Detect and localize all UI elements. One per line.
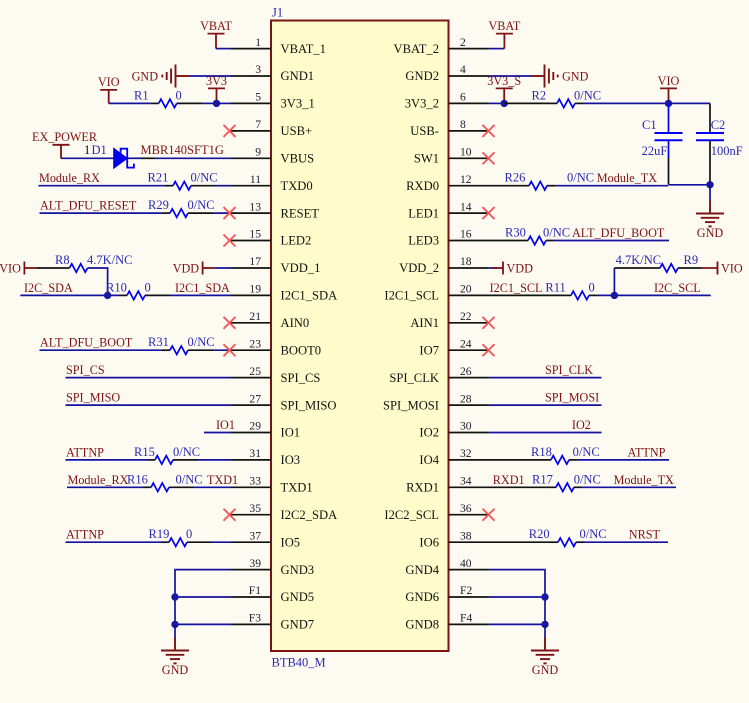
pin 23 BOOT0: [231, 337, 321, 357]
pin 5 3V3_1: [231, 91, 315, 111]
power port 3V3 (above pin5 node): [208, 88, 225, 103]
pin 8 USB-: [410, 118, 488, 138]
resistor R31 0/NC (row 23): [148, 335, 215, 354]
svg-text:0/NC: 0/NC: [176, 472, 203, 486]
wire ATTNP to R19: [66, 541, 162, 543]
svg-text:AIN1: AIN1: [410, 316, 439, 330]
svg-text:VIO: VIO: [658, 74, 680, 88]
svg-text:R17: R17: [532, 472, 553, 486]
resistor R16 0/NC (row 33): [127, 472, 203, 491]
pin 9 VBUS: [231, 146, 314, 166]
wire SPI_MISO to pin 27: [66, 404, 232, 406]
pin 34 RXD1: [406, 475, 488, 495]
no-connect X pin 10 SW1: [483, 152, 495, 164]
svg-text:28: 28: [460, 392, 472, 405]
wire pin 16 to R30: [489, 240, 521, 242]
pin 21 AIN0: [231, 310, 309, 330]
svg-text:R30: R30: [505, 226, 526, 240]
svg-text:VBAT: VBAT: [200, 19, 232, 33]
wire R16 to pin 33: [194, 486, 231, 488]
wire pin 20 to R11: [489, 294, 564, 296]
wire ALT_DFU_RESET to R29: [40, 212, 163, 214]
svg-text:TXD1: TXD1: [281, 481, 313, 495]
svg-text:IO3: IO3: [281, 453, 301, 467]
resistor R17 0/NC (row 34): [532, 472, 601, 491]
pin 22 AIN1: [410, 310, 488, 330]
svg-text:SPI_MOSI: SPI_MOSI: [383, 398, 439, 412]
no-connect X pin 8 USB-: [483, 125, 495, 137]
svg-text:LED1: LED1: [408, 206, 439, 220]
wire I2C_SDA to R10: [20, 294, 119, 296]
power port 3V3_S (above pin 6 node): [496, 88, 513, 103]
svg-text:GND4: GND4: [405, 563, 439, 577]
svg-text:RESET: RESET: [281, 206, 320, 220]
svg-text:AIN0: AIN0: [281, 316, 310, 330]
svg-text:36: 36: [460, 502, 472, 515]
svg-text:IO6: IO6: [419, 535, 439, 549]
wire R15 to pin 31: [198, 459, 231, 461]
wire VIO to R1: [109, 102, 151, 104]
power port VBAT (right of pin 2): [496, 34, 513, 49]
svg-text:4.7K/NC: 4.7K/NC: [87, 253, 133, 267]
svg-text:GND: GND: [697, 226, 724, 240]
svg-text:IO1: IO1: [216, 418, 235, 432]
resistor R21 0/NC (row 11): [148, 171, 218, 190]
svg-text:SPI_CS: SPI_CS: [66, 363, 105, 377]
svg-text:BOOT0: BOOT0: [281, 343, 322, 357]
svg-text:R16: R16: [127, 472, 148, 486]
svg-text:23: 23: [249, 337, 261, 350]
svg-text:12: 12: [460, 173, 472, 186]
junction 3V3 node: [213, 100, 220, 107]
resistor R18 0/NC (row 32): [531, 445, 600, 464]
svg-text:14: 14: [460, 200, 472, 213]
wire ALT_DFU_BOOT to R31: [40, 349, 163, 351]
no-connect X pin 35 I2C2_SDA: [224, 509, 236, 521]
resistor R30 0/NC (row 16): [505, 226, 570, 245]
pin 2 VBAT_2: [394, 36, 489, 56]
svg-text:VBAT_1: VBAT_1: [281, 42, 326, 56]
wire R29 to pin 13: [213, 212, 231, 214]
pin 14 LED1: [408, 200, 488, 220]
svg-text:VDD: VDD: [173, 262, 200, 276]
resistor R29 0/NC (row 13): [148, 198, 215, 217]
no-connect X pin 14 LED1: [483, 207, 495, 219]
wire R8 down to SDA node: [88, 268, 108, 295]
wire pin 6 to 3V3_S node: [489, 102, 505, 104]
wire VIO to R8: [36, 267, 61, 269]
connector J1 body BTB40_M: [271, 21, 449, 652]
svg-text:IO2: IO2: [572, 418, 591, 432]
svg-text:18: 18: [460, 255, 472, 268]
svg-text:ALT_DFU_BOOT: ALT_DFU_BOOT: [40, 336, 133, 350]
svg-text:0: 0: [589, 280, 595, 294]
svg-text:R29: R29: [148, 198, 169, 212]
junction SCL node: [611, 292, 618, 299]
svg-text:IO5: IO5: [281, 535, 301, 549]
svg-text:I2C2_SDA: I2C2_SDA: [281, 508, 338, 522]
svg-text:RXD0: RXD0: [406, 179, 439, 193]
resistor R9 4.7K/NC (row 17 right pullup): [616, 253, 701, 272]
wire R26 to Module_TX: [555, 185, 668, 187]
svg-text:SPI_MISO: SPI_MISO: [66, 391, 120, 405]
svg-text:I2C1_SDA: I2C1_SDA: [281, 289, 338, 303]
svg-text:I2C1_SCL: I2C1_SCL: [384, 289, 439, 303]
svg-text:0/NC: 0/NC: [543, 226, 570, 240]
wire IO1 to pin 29: [204, 432, 231, 434]
svg-text:IO7: IO7: [419, 343, 439, 357]
svg-text:R18: R18: [531, 445, 552, 459]
svg-text:0/NC: 0/NC: [567, 171, 594, 185]
wire pin 30 IO2: [489, 432, 602, 434]
no-connect X pin 23: [224, 344, 236, 356]
svg-text:D1: D1: [92, 143, 107, 157]
power port VIO (top right rail): [660, 88, 677, 103]
svg-text:GND7: GND7: [281, 618, 315, 632]
svg-text:R2: R2: [532, 88, 547, 102]
svg-text:26: 26: [460, 365, 472, 378]
svg-text:1: 1: [255, 36, 261, 49]
svg-text:R19: R19: [149, 527, 170, 541]
wire ATTNP to R15: [66, 459, 148, 461]
svg-text:ATTNP: ATTNP: [628, 445, 666, 459]
wire pin 32 to R18: [489, 459, 544, 461]
svg-text:2: 2: [460, 36, 466, 49]
svg-text:C1: C1: [642, 118, 657, 132]
svg-text:R26: R26: [505, 171, 526, 185]
svg-text:3: 3: [255, 63, 261, 76]
pin 11 TXD0: [231, 173, 313, 193]
resistor R26 None (row 12): [505, 171, 556, 190]
no-connect X pin 21 AIN0: [224, 317, 236, 329]
svg-text:ALT_DFU_BOOT: ALT_DFU_BOOT: [572, 226, 665, 240]
wire R20 to NRST: [584, 541, 668, 543]
svg-text:Module_RX: Module_RX: [68, 473, 129, 487]
svg-text:100nF: 100nF: [711, 144, 743, 158]
pin 37 IO5: [231, 529, 300, 549]
svg-text:BTB40_M: BTB40_M: [272, 656, 326, 670]
svg-text:3V3_S: 3V3_S: [487, 74, 521, 88]
svg-text:29: 29: [249, 420, 261, 433]
pin 29 IO1: [231, 420, 300, 440]
svg-text:SW1: SW1: [414, 152, 439, 166]
resistor R11 0 (row 20): [545, 280, 597, 299]
pin 38 IO6: [419, 529, 488, 549]
svg-text:RXD1: RXD1: [406, 481, 439, 495]
svg-text:ATTNP: ATTNP: [66, 528, 104, 542]
svg-text:F4: F4: [460, 612, 472, 625]
pin 16 LED3: [408, 228, 488, 248]
svg-text:LED3: LED3: [408, 234, 439, 248]
svg-text:25: 25: [249, 365, 261, 378]
power port EX_POWER: [53, 145, 70, 159]
pin 17 VDD_1: [231, 255, 320, 275]
no-connect X pin 36 I2C2_SCL: [483, 509, 495, 521]
svg-text:34: 34: [460, 475, 472, 488]
pin 24 IO7: [419, 337, 488, 357]
wire pin 2 to VBAT: [489, 48, 505, 50]
svg-text:27: 27: [249, 392, 261, 405]
ground top right: [696, 201, 724, 227]
pin 40 GND4: [405, 557, 488, 577]
no-connect X pin 24 IO7: [483, 344, 495, 356]
wire R30 to ALT_DFU_BOOT: [554, 240, 669, 242]
svg-text:35: 35: [249, 502, 261, 515]
svg-text:R1: R1: [134, 88, 149, 102]
wire bus to ground right: [544, 624, 546, 637]
svg-text:R8: R8: [55, 253, 70, 267]
wire F4 to bus: [489, 623, 546, 625]
svg-text:16: 16: [460, 228, 472, 241]
svg-text:0: 0: [145, 280, 151, 294]
capacitor C1 22uF: [642, 103, 683, 158]
svg-text:VDD_1: VDD_1: [281, 261, 321, 275]
svg-text:Module_TX: Module_TX: [614, 473, 674, 487]
svg-text:0: 0: [176, 88, 182, 102]
svg-text:USB-: USB-: [410, 124, 439, 138]
svg-text:40: 40: [460, 557, 472, 570]
wire VBAT to pin 1: [216, 48, 231, 50]
svg-text:VBUS: VBUS: [281, 152, 315, 166]
wire F3 to bus: [175, 623, 231, 625]
wire R11 to I2C_SCL: [597, 294, 711, 296]
pin F4 GND8: [405, 612, 488, 632]
svg-text:8: 8: [460, 118, 466, 131]
svg-text:J1: J1: [272, 6, 283, 20]
no-connect X pin 7 USB+: [224, 125, 236, 137]
pin 6 3V3_2: [405, 91, 489, 111]
wire R1 to 3V3 node: [203, 102, 217, 104]
wire pin 39 down bus: [175, 570, 231, 625]
svg-text:GND: GND: [162, 663, 189, 677]
resistor R2 0/NC (row 6): [532, 88, 602, 107]
svg-text:SPI_CLK: SPI_CLK: [545, 363, 593, 377]
svg-text:I2C_SCL: I2C_SCL: [654, 281, 701, 295]
pin 7 USB+: [231, 118, 312, 138]
svg-text:SPI_CS: SPI_CS: [281, 371, 321, 385]
svg-text:IO4: IO4: [419, 453, 439, 467]
svg-text:3V3_2: 3V3_2: [405, 97, 439, 111]
svg-text:ATTNP: ATTNP: [66, 445, 104, 459]
wire pin 40 down bus: [489, 570, 546, 625]
svg-text:I2C1_SCL: I2C1_SCL: [490, 281, 543, 295]
svg-text:R10: R10: [106, 280, 127, 294]
wire R2 to VIO node: [583, 102, 669, 104]
svg-text:SPI_CLK: SPI_CLK: [389, 371, 439, 385]
svg-text:Module_RX: Module_RX: [39, 171, 100, 185]
svg-text:1: 1: [84, 143, 90, 157]
svg-text:4: 4: [460, 63, 466, 76]
power port VDD (VDD_1 at pin 17): [203, 262, 215, 275]
wire pin 38 to R20: [489, 541, 551, 543]
svg-text:IO1: IO1: [281, 426, 301, 440]
pin 36 I2C2_SCL: [384, 502, 488, 522]
ground bottom right: [531, 638, 559, 664]
svg-text:GND8: GND8: [405, 618, 439, 632]
svg-text:37: 37: [249, 529, 261, 542]
wire EX_POWER to D1 anode: [61, 157, 114, 159]
svg-text:33: 33: [249, 475, 261, 488]
wire pin 12 to R26: [489, 185, 522, 187]
svg-text:3V3: 3V3: [206, 74, 227, 88]
pin F1 GND5: [231, 584, 314, 604]
junction VIO rail: [665, 100, 672, 107]
svg-text:IO2: IO2: [419, 426, 439, 440]
svg-text:9: 9: [255, 146, 261, 159]
pin 10 SW1: [414, 146, 489, 166]
svg-text:VDD_2: VDD_2: [399, 261, 439, 275]
wire SCL node up: [613, 268, 615, 295]
pin 35 I2C2_SDA: [231, 502, 337, 522]
wire pin 18 to VDD: [489, 267, 498, 269]
svg-text:21: 21: [249, 310, 261, 323]
svg-text:7: 7: [255, 118, 261, 131]
svg-text:0/NC: 0/NC: [173, 445, 200, 459]
pin 33 TXD1: [231, 475, 313, 495]
svg-text:GND1: GND1: [281, 69, 315, 83]
svg-text:R9: R9: [684, 253, 699, 267]
wire D1 to pin 9: [156, 157, 231, 159]
wire R17 to Module_TX: [582, 486, 676, 488]
svg-text:R31: R31: [148, 335, 169, 349]
svg-text:31: 31: [249, 447, 261, 460]
svg-text:RXD1: RXD1: [493, 473, 525, 487]
svg-text:39: 39: [249, 557, 261, 570]
power port VBAT (left of pin 1): [208, 34, 225, 49]
svg-text:10: 10: [460, 146, 472, 159]
wire F2 to bus: [489, 596, 546, 598]
svg-text:NRST: NRST: [629, 528, 661, 542]
svg-text:11: 11: [250, 173, 261, 186]
svg-text:4.7K/NC: 4.7K/NC: [616, 253, 662, 267]
wire R21 to pin 11: [216, 185, 231, 187]
svg-text:F1: F1: [249, 584, 261, 597]
svg-text:5: 5: [255, 91, 261, 104]
svg-text:0/NC: 0/NC: [573, 445, 600, 459]
ground at pin 3: [162, 65, 189, 88]
wire GND to pin 3: [189, 75, 231, 77]
wire F1 to bus: [175, 596, 231, 598]
ground at pin 4: [531, 65, 558, 88]
wire 3V3 node to pin 5: [217, 102, 232, 104]
wire R18 to ATTNP: [577, 459, 669, 461]
svg-text:0: 0: [186, 527, 192, 541]
svg-text:0/NC: 0/NC: [574, 88, 601, 102]
svg-text:C2: C2: [711, 118, 726, 132]
svg-text:VDD: VDD: [507, 262, 534, 276]
svg-text:GND: GND: [562, 69, 589, 83]
pin 19 I2C1_SDA: [231, 283, 337, 303]
svg-text:0/NC: 0/NC: [188, 335, 215, 349]
junction F4 gnd bus: [541, 621, 548, 628]
resistor R10 0 (row 19): [106, 280, 170, 299]
svg-text:0/NC: 0/NC: [191, 171, 218, 185]
pin F3 GND7: [231, 612, 314, 632]
svg-text:GND2: GND2: [405, 69, 439, 83]
svg-text:GND5: GND5: [281, 590, 315, 604]
power port VIO (right of R9): [701, 262, 718, 275]
wire VIO rail to C2 branch: [669, 102, 711, 104]
svg-text:19: 19: [249, 283, 261, 296]
pin 13 RESET: [231, 200, 319, 220]
pin 30 IO2: [419, 420, 488, 440]
svg-text:22: 22: [460, 310, 472, 323]
pin 28 SPI_MOSI: [383, 392, 489, 412]
wire R31 to pin 23: [213, 349, 231, 351]
svg-text:GND: GND: [532, 663, 559, 677]
power port VDD (VDD_2 at pin 18): [491, 262, 503, 275]
wire pin 34 to R17: [489, 486, 549, 488]
junction F3 gnd bus: [171, 621, 178, 628]
resistor R15 0/NC (row 31): [134, 445, 200, 464]
svg-text:I2C1_SDA: I2C1_SDA: [175, 281, 230, 295]
wire R19 to pin 37: [212, 541, 231, 543]
wire Module_RX to R16: [67, 486, 143, 488]
svg-text:I2C2_SCL: I2C2_SCL: [384, 508, 439, 522]
pin 4 GND2: [405, 63, 488, 83]
capacitor C2 100nF: [696, 103, 743, 184]
resistor R19 0 (row 37): [149, 527, 213, 546]
wire VDD to pin 17: [215, 267, 231, 269]
power port VIO (left of R1): [100, 90, 117, 104]
svg-text:ALT_DFU_RESET: ALT_DFU_RESET: [40, 199, 137, 213]
ground bottom left: [161, 638, 189, 664]
svg-text:SPI_MISO: SPI_MISO: [281, 398, 337, 412]
pin 1 VBAT_1: [231, 36, 326, 56]
wire pin 26 SPI_CLK: [489, 377, 602, 379]
pin 32 IO4: [419, 447, 488, 467]
junction cap gnd node: [706, 181, 713, 188]
resistor R8 4.7K/NC (row 17 pullup): [55, 253, 133, 272]
wire gnd node down: [709, 185, 711, 201]
power port VIO (left of R8): [24, 262, 36, 275]
resistor R20 0/NC (row 38): [529, 527, 607, 546]
svg-text:GND: GND: [132, 69, 159, 83]
svg-text:SPI_MOSI: SPI_MOSI: [545, 391, 599, 405]
svg-text:GND6: GND6: [405, 590, 439, 604]
pin 15 LED2: [231, 228, 311, 248]
wire pin 4 to GND: [489, 75, 532, 77]
svg-text:LED2: LED2: [281, 234, 312, 248]
svg-text:Module_TX: Module_TX: [597, 171, 657, 185]
svg-text:17: 17: [249, 255, 261, 268]
pin 25 SPI_CS: [231, 365, 320, 385]
svg-text:VIO: VIO: [721, 262, 743, 276]
wire Module_RX to R21: [39, 185, 166, 187]
pin 27 SPI_MISO: [231, 392, 337, 412]
no-connect X pin 13: [224, 207, 236, 219]
svg-text:38: 38: [460, 529, 472, 542]
wire C1 bottom to gnd node: [669, 184, 711, 186]
svg-text:30: 30: [460, 420, 472, 433]
wire SPI_CS to pin 25: [66, 377, 232, 379]
svg-text:F2: F2: [460, 584, 472, 597]
pin 31 IO3: [231, 447, 300, 467]
wire up to R9: [614, 267, 652, 269]
junction F2 gnd bus: [541, 593, 548, 600]
wire bus to ground: [174, 624, 176, 637]
svg-text:3V3_1: 3V3_1: [281, 97, 315, 111]
svg-text:0/NC: 0/NC: [574, 472, 601, 486]
no-connect X pin 22 AIN1: [483, 317, 495, 329]
svg-text:F3: F3: [249, 612, 261, 625]
svg-text:6: 6: [460, 91, 466, 104]
pin 39 GND3: [231, 557, 314, 577]
resistor R1 0 (row 5): [134, 88, 203, 107]
svg-text:VIO: VIO: [98, 75, 120, 89]
svg-text:VIO: VIO: [0, 262, 21, 276]
svg-text:R15: R15: [134, 445, 155, 459]
